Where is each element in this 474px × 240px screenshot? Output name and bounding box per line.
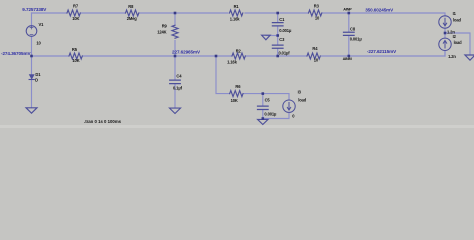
wire C1/C3 column	[277, 13, 279, 56]
wire C5 pins	[262, 94, 264, 119]
current source I2	[439, 38, 451, 50]
svg-text:0.001µ: 0.001µ	[279, 28, 292, 33]
resistor R3	[309, 10, 322, 16]
wire bottom rail	[32, 51, 446, 56]
svg-text:-274.36705mV: -274.36705mV	[1, 51, 31, 56]
resistor R5	[69, 53, 82, 59]
wire right column	[445, 28, 470, 56]
voltage source V1	[26, 26, 37, 37]
diode D1	[29, 75, 34, 79]
svg-text:1.2n: 1.2n	[448, 54, 456, 59]
svg-text:0.01µf: 0.01µf	[279, 50, 291, 55]
svg-text:2Meg: 2Meg	[127, 16, 138, 21]
svg-text:R4: R4	[312, 46, 318, 51]
svg-text:C1: C1	[279, 17, 285, 22]
svg-text:227.62965mV: 227.62965mV	[172, 49, 201, 54]
svg-text:AINM: AINM	[343, 56, 352, 61]
svg-text:AINP: AINP	[343, 7, 352, 12]
svg-text:C8: C8	[350, 27, 356, 32]
svg-text:R2: R2	[236, 49, 242, 54]
svg-text:10K: 10K	[231, 98, 238, 103]
svg-text:C3: C3	[279, 37, 285, 42]
capacitor C8	[344, 32, 355, 35]
wire mid ground stub	[266, 35, 278, 37]
svg-text:10K: 10K	[72, 16, 79, 21]
svg-text:load: load	[453, 17, 462, 22]
svg-text:load: load	[298, 97, 307, 102]
wire top rail	[32, 13, 446, 16]
svg-text:0.001µ: 0.001µ	[350, 37, 363, 42]
resistor R9 (vertical)	[172, 25, 178, 38]
svg-text:V1: V1	[39, 22, 45, 27]
svg-text:R8: R8	[128, 4, 134, 9]
svg-text:-227.62115mV: -227.62115mV	[367, 49, 397, 54]
svg-text:D1: D1	[35, 72, 41, 77]
svg-text:0.001µ: 0.001µ	[264, 111, 277, 116]
svg-text:C4: C4	[176, 74, 182, 79]
wire R6 branch	[216, 56, 289, 100]
svg-text:R1: R1	[234, 4, 240, 9]
svg-text:9.7257338V: 9.7257338V	[22, 7, 47, 12]
svg-text:0.1µf: 0.1µf	[173, 85, 183, 90]
ground under C5	[258, 119, 268, 124]
resistor R4	[307, 53, 320, 59]
svg-text:R9: R9	[162, 24, 168, 29]
resistor R2	[232, 53, 245, 59]
svg-text:R6: R6	[235, 84, 241, 89]
svg-text:1.16k: 1.16k	[227, 59, 237, 64]
svg-text:R7: R7	[73, 3, 79, 8]
ground under C4	[170, 108, 181, 113]
ground right	[465, 55, 474, 60]
wire R9/C4 column	[174, 13, 176, 108]
resistor R7	[67, 10, 80, 16]
capacitor C4	[170, 80, 181, 84]
svg-text:1.16k: 1.16k	[230, 17, 240, 22]
svg-text:C5: C5	[265, 97, 271, 102]
svg-text:350.60245mV: 350.60245mV	[365, 8, 394, 13]
svg-text:R3: R3	[314, 4, 320, 9]
wire C8 column	[348, 13, 350, 56]
wire load bottom	[263, 113, 289, 119]
svg-text:load: load	[454, 40, 463, 45]
svg-text:124K: 124K	[157, 29, 166, 34]
resistor R6	[230, 91, 243, 97]
current source I1	[439, 16, 451, 28]
ground under V1	[26, 108, 37, 113]
current source I3	[283, 100, 295, 112]
svg-text:R5: R5	[72, 47, 78, 52]
ground mid stub	[262, 35, 271, 40]
capacitor C3	[272, 45, 283, 48]
wire V1 column	[31, 13, 33, 108]
capacitor C1	[272, 23, 283, 26]
svg-text:.tran 0 1s 0 100ms: .tran 0 1s 0 100ms	[84, 119, 122, 124]
resistor R1	[230, 10, 243, 16]
svg-text:10K: 10K	[72, 58, 79, 63]
svg-text:D: D	[35, 78, 38, 83]
resistor R8	[126, 10, 139, 16]
capacitor C5	[258, 106, 269, 109]
